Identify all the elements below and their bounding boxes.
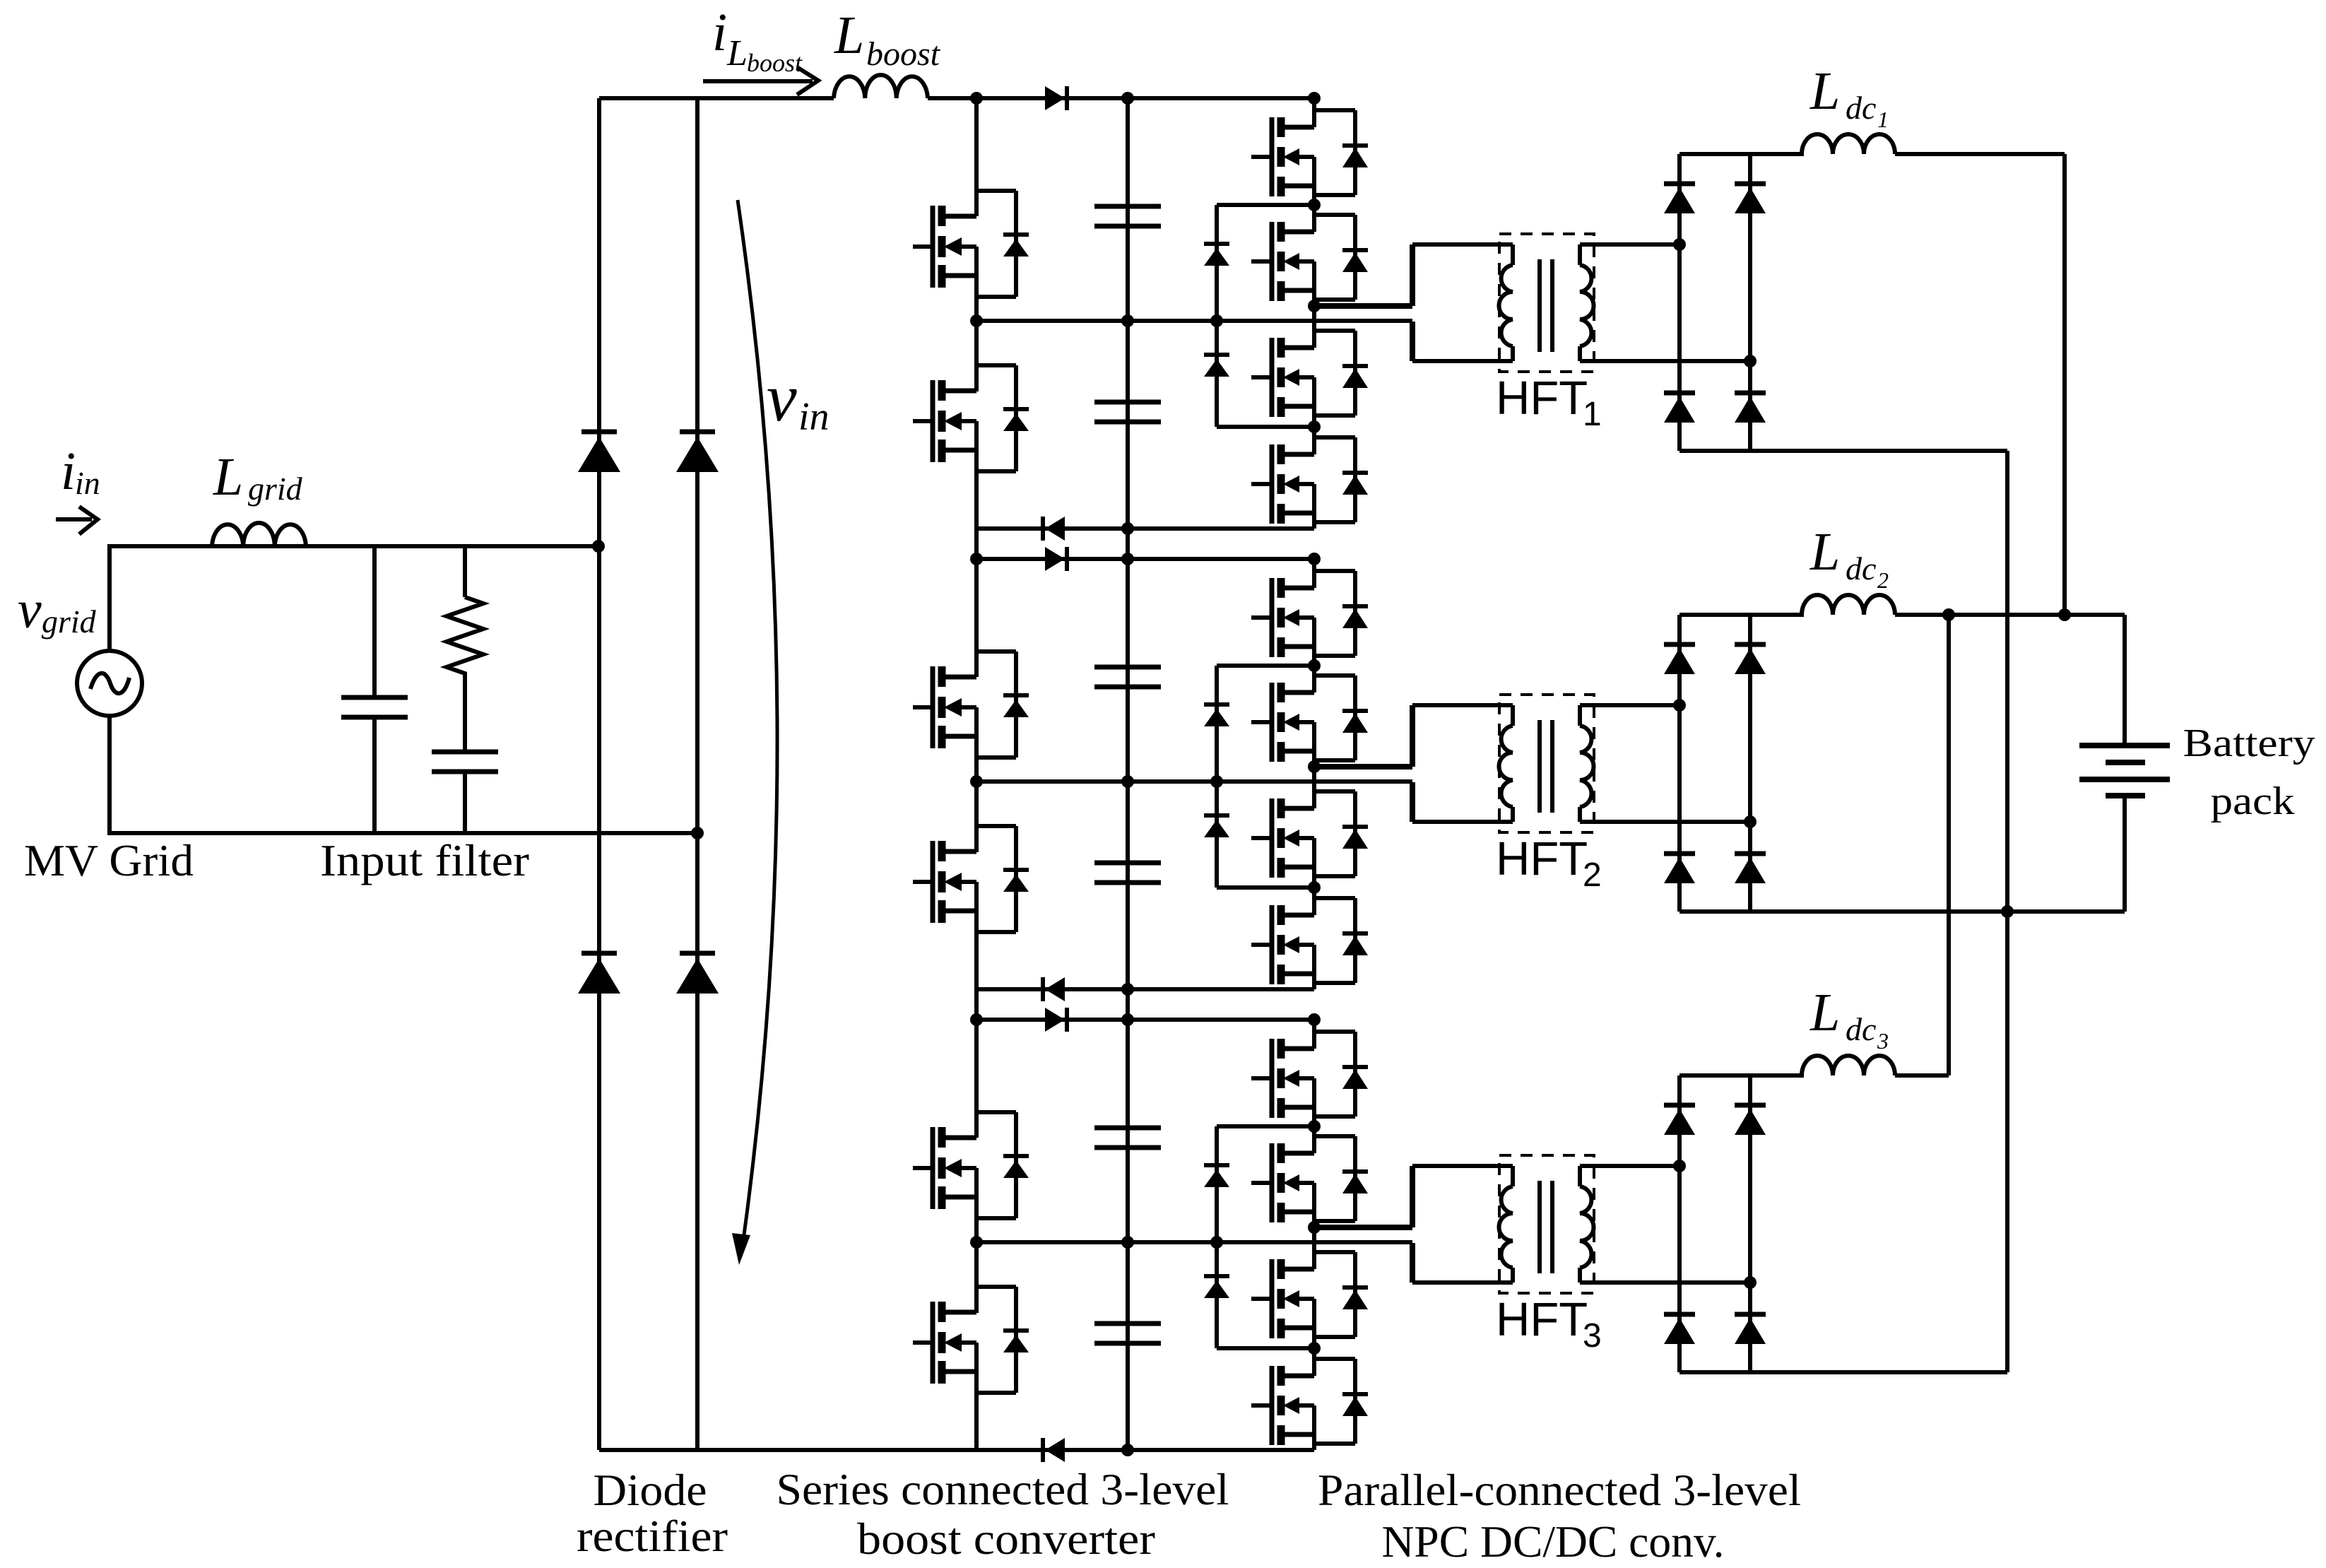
svg-text:dc: dc bbox=[1846, 1011, 1876, 1047]
svg-text:L: L bbox=[726, 33, 748, 73]
svg-text:v: v bbox=[767, 360, 797, 435]
svg-text:NPC DC/DC conv.: NPC DC/DC conv. bbox=[1382, 1516, 1725, 1567]
svg-text:Diode: Diode bbox=[594, 1465, 707, 1515]
svg-text:Series connected 3-level: Series connected 3-level bbox=[777, 1464, 1229, 1514]
svg-text:in: in bbox=[798, 395, 830, 439]
svg-text:2: 2 bbox=[1877, 567, 1889, 593]
svg-text:grid: grid bbox=[248, 471, 303, 507]
svg-text:HFT: HFT bbox=[1496, 372, 1588, 425]
svg-text:L: L bbox=[1810, 983, 1840, 1042]
svg-text:3: 3 bbox=[1583, 1317, 1602, 1355]
svg-text:2: 2 bbox=[1583, 856, 1602, 894]
svg-text:v: v bbox=[18, 580, 42, 639]
svg-text:dc: dc bbox=[1846, 550, 1876, 586]
svg-text:dc: dc bbox=[1846, 90, 1876, 126]
svg-text:L: L bbox=[834, 6, 864, 65]
svg-text:Input filter: Input filter bbox=[320, 835, 529, 885]
svg-text:3: 3 bbox=[1877, 1028, 1889, 1054]
svg-text:i: i bbox=[61, 442, 76, 501]
svg-text:boost: boost bbox=[747, 49, 803, 77]
svg-text:Parallel-connected 3-level: Parallel-connected 3-level bbox=[1318, 1465, 1801, 1515]
svg-text:1: 1 bbox=[1583, 396, 1602, 433]
svg-text:MV Grid: MV Grid bbox=[24, 835, 194, 885]
svg-text:L: L bbox=[1810, 522, 1840, 582]
svg-text:1: 1 bbox=[1877, 107, 1889, 132]
svg-text:in: in bbox=[75, 465, 100, 501]
svg-text:boost converter: boost converter bbox=[857, 1514, 1155, 1564]
svg-text:Battery: Battery bbox=[2183, 721, 2315, 765]
svg-text:pack: pack bbox=[2211, 779, 2295, 823]
svg-text:L: L bbox=[1810, 61, 1840, 121]
svg-text:L: L bbox=[213, 447, 243, 507]
svg-text:boost: boost bbox=[866, 35, 941, 73]
svg-text:HFT: HFT bbox=[1496, 1293, 1588, 1346]
svg-text:grid: grid bbox=[42, 603, 97, 639]
svg-text:i: i bbox=[712, 3, 727, 62]
svg-text:HFT: HFT bbox=[1496, 832, 1588, 885]
svg-text:rectifier: rectifier bbox=[577, 1511, 728, 1561]
